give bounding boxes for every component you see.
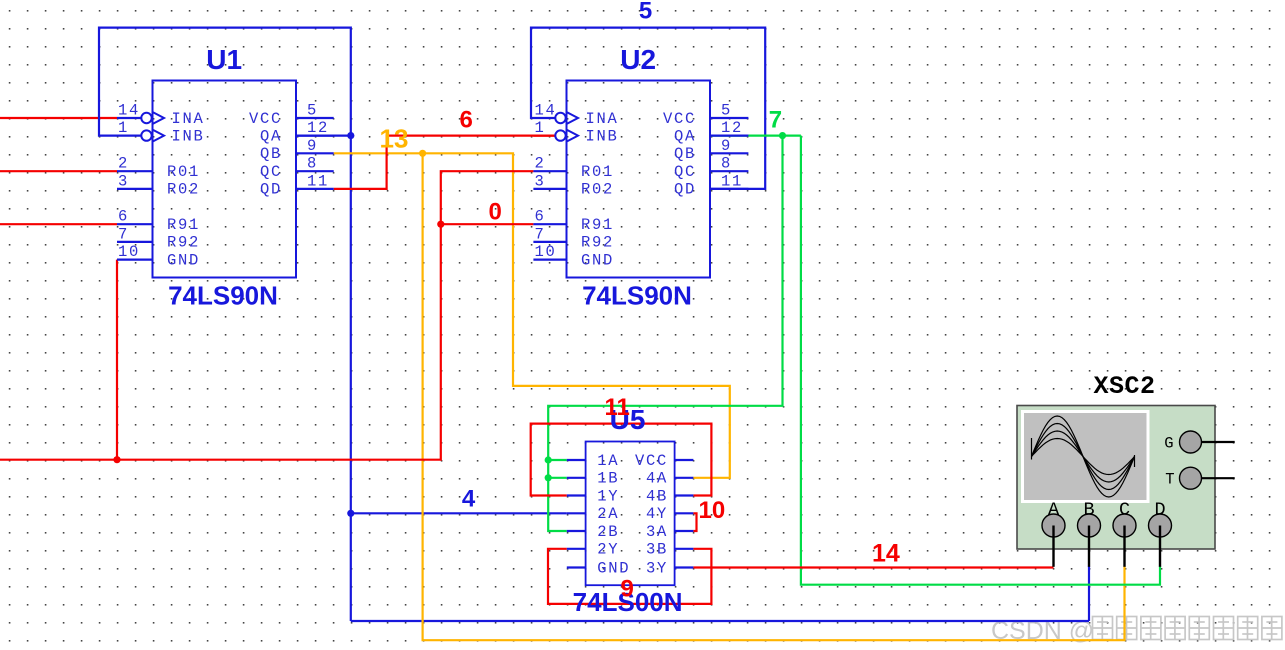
wire U2 INB red segment covering stub [533,135,555,137]
wire net 7 green U2 QA output [710,135,801,137]
U5 pin name VCC [635,452,668,470]
U5 pin GND stub [567,566,586,568]
U5 pin 3Y stub [675,566,694,568]
U2 pin 11 stub [710,188,748,190]
oscilloscope XSC2 label [1093,372,1155,401]
U5 pin 3B stub [675,548,694,550]
svg-text:8: 8 [721,155,732,173]
U2 pin name INA [586,110,619,128]
svg-text:2B: 2B [597,523,619,541]
U2 pin 12 stub [710,135,748,137]
U2 pin name QA [674,127,696,145]
svg-text:R02: R02 [581,181,614,199]
U1 reference designator [206,44,242,75]
svg-text:4A: 4A [646,470,668,488]
U2 pin name VCC [663,110,696,128]
wire net 7 green link 1A [548,459,567,461]
svg-text:2Y: 2Y [597,541,619,559]
wire net 13 orange drop to scope C [423,153,1125,640]
net label 0 [489,199,502,226]
U2 pin number 5 [721,102,732,120]
U2 pin 7 stub [533,241,566,243]
U5 pin 4Y stub [675,512,694,514]
U1 clock wedge INB [153,130,165,142]
U2 pin number 10 [535,243,557,261]
wire net 7 green branch to scope D [801,136,1160,585]
U2 pin name R91 [581,216,614,234]
svg-text:G: G [1164,435,1173,453]
U5 pin 2B stub [567,530,586,532]
wire blue feedback U1 QA to INB loop [99,28,351,621]
oscilloscope terminal D label [1154,500,1165,521]
svg-text:3Y: 3Y [646,559,668,577]
U1 pin number 3 [118,172,129,190]
U2 pin number 8 [721,155,732,173]
U2 pin name R01 [581,163,614,181]
junction green net 7 at QA [779,132,786,139]
svg-text:9: 9 [721,137,732,155]
wire net 9 red U5 2Y to 3B [548,549,711,604]
svg-text:3: 3 [118,172,129,190]
U1 pin name R91 [167,216,200,234]
U1 pin 10 stub [117,259,153,261]
U2 clock bubble INB [555,130,565,140]
U2 pin 6 stub [533,223,566,225]
U1 pin name R01 [167,163,200,181]
U2 pin number 3 [535,172,546,190]
U1 pin number 8 [307,155,318,173]
U5 pin name 4B [646,487,668,505]
junction orange net 13 [419,150,426,157]
svg-text:12: 12 [307,119,329,137]
wire net 0 red horizontal to U2 [117,171,533,460]
svg-text:7: 7 [118,225,129,243]
svg-text:XSC2: XSC2 [1093,372,1155,401]
U1 pin name QB [260,145,282,163]
wire blue feedback U2 QD to INA loop [531,28,765,189]
U1 pin 7 stub [117,241,153,243]
wire U1 INA stub [117,117,141,119]
oscilloscope terminal C label [1119,500,1130,521]
wire net 0 branch to U2 R91 pin 6 [441,223,534,225]
U2 pin number 9 [721,137,732,155]
net label 6 [460,107,473,134]
svg-text:14: 14 [872,540,900,568]
watermark CSDN text [991,617,1282,646]
svg-text:7: 7 [535,225,546,243]
U2 pin 5 stub [710,117,748,119]
U5 pin name 4Y [646,505,668,523]
U2 pin 3 stub [533,188,566,190]
svg-text:T: T [1165,471,1174,489]
U5 pin name 2B [597,523,619,541]
svg-text:R92: R92 [581,234,614,252]
U1 pin name QA [260,127,282,145]
oscilloscope terminal C [1113,514,1136,537]
U5 pin 1B stub [567,477,586,479]
svg-text:6: 6 [118,208,129,226]
net label 7 [769,107,782,134]
svg-text:R02: R02 [167,181,200,199]
svg-text:VCC: VCC [663,110,696,128]
svg-text:74LS90N: 74LS90N [168,281,278,311]
U2 pin name QD [674,181,696,199]
U1 pin 3 stub [117,188,153,190]
oscilloscope terminal G [1180,431,1202,453]
U2 pin name R02 [581,181,614,199]
oscilloscope terminal B label [1083,500,1094,521]
U2 clock bubble INA [555,113,565,123]
U5 pin 1Y stub [567,494,586,496]
svg-text:QD: QD [674,181,696,199]
svg-text:GND: GND [581,251,614,269]
U1 pin number 7 [118,225,129,243]
U5 value label 74LS00N [573,587,683,617]
svg-text:14: 14 [535,102,557,120]
U5 pin name GND [597,559,630,577]
U5 pin name 3Y [646,559,668,577]
svg-text:9: 9 [621,576,634,603]
U1 pin 12 stub [296,135,334,137]
junction red net 0 branch [437,221,444,228]
svg-text:VCC: VCC [249,110,282,128]
U1 pin number 12 [307,119,329,137]
U2 pin number 7 [535,225,546,243]
svg-text:R92: R92 [167,234,200,252]
U1 pin name INB [172,127,205,145]
U5 pin 4B stub [675,494,694,496]
svg-text:1: 1 [535,119,546,137]
U1 value label 74LS90N [168,281,278,311]
U2 clock wedge INB [567,130,579,142]
oscilloscope terminal G label [1164,435,1173,453]
U1 pin number 1 [118,119,129,137]
U1 pin name VCC [249,110,282,128]
U1 pin 11 stub [296,188,334,190]
IC U2 74LS90N body [567,81,711,278]
U1 clock bubble INA [141,113,151,123]
svg-text:1Y: 1Y [597,487,619,505]
net label 13 [380,124,409,154]
U5 reference designator [610,404,646,435]
oscilloscope terminal T label [1165,471,1174,489]
U1 pin 5 stub [296,117,334,119]
svg-text:4: 4 [462,485,476,512]
U1 pin name QC [260,163,282,181]
svg-text:13: 13 [380,124,409,154]
svg-text:GND: GND [167,251,200,269]
svg-text:QC: QC [674,163,696,181]
wire input to U1 R91 pin 6 [0,223,117,225]
U2 clock wedge INA [567,112,579,124]
U5 pin name 1B [597,470,619,488]
svg-text:12: 12 [721,119,743,137]
U5 pin name 1A [597,452,619,470]
svg-text:INB: INB [586,127,619,145]
wire input to U1 R01 pin 2 [0,170,117,172]
U5 pin name 2A [597,505,619,523]
svg-text:10: 10 [699,497,726,524]
junction blue at U1 QA [347,132,354,139]
U2 pin 2 stub [533,170,566,172]
svg-text:11: 11 [721,172,743,190]
svg-text:8: 8 [307,155,318,173]
junction green net 7 at 1A [545,456,552,463]
oscilloscope terminal D lead [1159,526,1161,567]
svg-text:QB: QB [260,145,282,163]
net label 10 [699,497,726,524]
junction green net 7 at 1B [545,474,552,481]
U2 pin 10 stub [533,259,566,261]
U2 pin number 1 [535,119,546,137]
svg-text:2: 2 [535,155,546,173]
U1 pin name R92 [167,234,200,252]
wire net 11 red U5 1Y to 4B [531,424,712,496]
U2 pin name QC [674,163,696,181]
svg-text:2A: 2A [597,505,619,523]
net label 11 [605,394,630,421]
oscilloscope sine waveform traces [1032,416,1135,497]
oscilloscope terminal A label [1048,500,1060,521]
svg-text:5: 5 [307,102,318,120]
oscilloscope terminal T [1180,467,1202,489]
U5 pin VCC stub [675,459,694,461]
svg-text:11: 11 [307,172,329,190]
U5 pin 2A stub [567,512,586,514]
U5 pin 2Y stub [567,548,586,550]
svg-text:2: 2 [118,155,129,173]
net label 9 [621,576,634,603]
svg-text:INB: INB [172,127,205,145]
oscilloscope screen [1023,412,1149,502]
U1 pin 2 stub [117,170,153,172]
U2 pin number 14 [535,102,557,120]
oscilloscope terminal G lead [1202,441,1235,443]
svg-text:74LS90N: 74LS90N [582,281,692,311]
U2 pin number 2 [535,155,546,173]
U1 pin name R02 [167,181,200,199]
oscilloscope terminal B lead [1088,526,1090,567]
svg-text:INA: INA [172,110,205,128]
svg-text:VCC: VCC [635,452,668,470]
svg-text:5: 5 [639,0,652,25]
junction blue at net 4 branch [347,510,354,517]
svg-text:14: 14 [118,102,140,120]
oscilloscope terminal T lead [1202,477,1235,479]
U5 pin name 3A [646,523,668,541]
oscilloscope terminal A lead [1052,526,1054,567]
svg-text:11: 11 [605,394,630,421]
U1 pin name GND [167,251,200,269]
U1 pin number 9 [307,137,318,155]
svg-text:R91: R91 [167,216,200,234]
U1 pin 6 stub [117,223,153,225]
svg-text:U2: U2 [620,44,656,75]
svg-text:10: 10 [118,243,140,261]
U2 pin number 12 [721,119,743,137]
U1 pin 9 stub [296,152,334,154]
IC U1 74LS90N body [153,81,297,278]
U5 pin name 1Y [597,487,619,505]
svg-text:4Y: 4Y [646,505,668,523]
wire net 7 green branch to U5 inputs [548,136,782,531]
net label 5 [639,0,652,25]
oscilloscope terminal A [1042,514,1065,537]
svg-text:3: 3 [535,172,546,190]
svg-text:4B: 4B [646,487,668,505]
svg-text:3A: 3A [646,523,668,541]
U1 pin number 14 [118,102,140,120]
U2 pin 8 stub [710,170,748,172]
svg-text:5: 5 [721,102,732,120]
svg-text:7: 7 [769,107,782,134]
svg-text:6: 6 [535,208,546,226]
svg-text:R91: R91 [581,216,614,234]
svg-text:U1: U1 [206,44,242,75]
wire net 14 red U5 3Y to scope A [693,566,1053,568]
svg-text:QB: QB [674,145,696,163]
oscilloscope XSC2 body [1017,406,1215,550]
U2 pin name R92 [581,234,614,252]
wire net 13 orange U1 QB to U5 4A [334,153,730,478]
net label 14 [872,540,900,568]
U5 pin 1A stub [567,459,586,461]
U1 pin number 10 [118,243,140,261]
wire net 6 red U1 QD to U2 INB [334,136,556,189]
U2 pin 9 stub [710,152,748,154]
U1 pin name QD [260,181,282,199]
U1 pin number 5 [307,102,318,120]
junction red net 0 at U1 GND [113,456,120,463]
U5 pin 3A stub [675,530,694,532]
U2 pin name QB [674,145,696,163]
svg-text:QD: QD [260,181,282,199]
U2 pin name INB [586,127,619,145]
U2 pin number 11 [721,172,743,190]
svg-text:1A: 1A [597,452,619,470]
svg-text:3B: 3B [646,541,668,559]
wire net 4 riser to scope B [1088,566,1090,621]
svg-text:QC: QC [260,163,282,181]
U5 pin 4A stub [675,477,694,479]
svg-text:0: 0 [489,199,502,226]
wire net 4 horizontal to U5 2A [351,512,567,514]
svg-text:R01: R01 [581,163,614,181]
wire net 10 red U5 4Y to 3A [693,513,696,531]
U2 value label 74LS90N [582,281,692,311]
wire net 7 green link 1B [548,477,567,479]
U5 pin name 4A [646,470,668,488]
svg-text:1B: 1B [597,470,619,488]
U2 reference designator [620,44,656,75]
U2 pin number 6 [535,208,546,226]
U2 pin name GND [581,251,614,269]
U1 pin number 2 [118,155,129,173]
U1 pin 8 stub [296,170,334,172]
U5 pin name 2Y [597,541,619,559]
svg-text:6: 6 [460,107,473,134]
svg-text:1: 1 [118,119,129,137]
wire net 4 bottom horizontal to scope B [351,620,1089,622]
wire net 0 red U1 GND drop [0,260,117,460]
svg-text:9: 9 [307,137,318,155]
oscilloscope terminal D [1149,514,1172,537]
svg-text:INA: INA [586,110,619,128]
svg-text:10: 10 [535,243,557,261]
IC U5 74LS00N body [586,442,675,586]
U1 clock wedge INA [153,112,165,124]
wire U1 QA pin 12 to vertical [296,135,351,137]
U1 clock bubble INB [141,130,151,140]
svg-text:QA: QA [260,127,282,145]
U1 pin number 11 [307,172,329,190]
svg-text:R01: R01 [167,163,200,181]
svg-text:QA: QA [674,127,696,145]
U1 pin number 6 [118,208,129,226]
oscilloscope terminal C lead [1123,526,1125,567]
wire net 0 input to U1 INA pin 14 [0,117,117,119]
U5 pin name 3B [646,541,668,559]
net label 4 [462,485,476,512]
oscilloscope terminal B [1078,514,1101,537]
U1 pin name INA [172,110,205,128]
